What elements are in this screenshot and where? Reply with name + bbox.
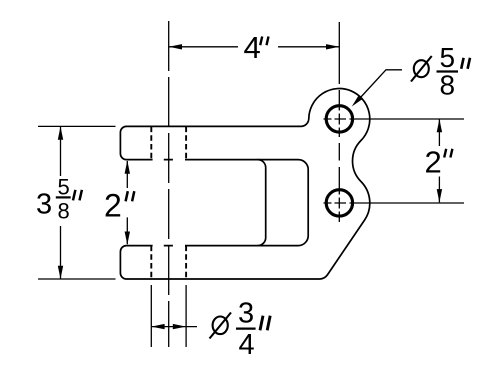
arrow slot 2in down <box>125 232 130 245</box>
extension line: overall height top (3 5/8) <box>38 125 116 127</box>
dimension line 4 inch (top) <box>169 46 340 48</box>
hole H1 top 5/8 circle <box>326 106 352 132</box>
hole H2 bottom 5/8 circle <box>326 190 352 216</box>
arrow 2in right top <box>437 119 442 132</box>
inch mark after 5/8 <box>461 58 470 69</box>
hidden line: pin hole left edge, top arm <box>150 127 152 160</box>
hidden line: pin hole right edge, top arm <box>185 127 187 160</box>
svg-text:8: 8 <box>58 198 70 223</box>
hole opening breaks on inner face of top arm <box>153 159 185 161</box>
extension line: overall height bottom (3 5/8) <box>38 278 116 280</box>
leader line dia 5/8 <box>360 70 402 98</box>
dimension line 2 inch (slot, inner) <box>126 161 128 244</box>
extension line: hole edge left below part <box>150 285 152 347</box>
dimension line dia 3/4 (bottom) <box>151 326 197 328</box>
arrow slot 2in up <box>125 160 130 173</box>
centerline: right holes axis vertical x=339.3 <box>338 22 340 222</box>
svg-text:3: 3 <box>238 298 254 330</box>
arrow 2in right bottom <box>437 189 442 202</box>
phi symbol dia 3/4 <box>210 313 232 339</box>
inch mark after 3 5/8 <box>73 190 82 201</box>
dimension line 3 5/8 (left) <box>60 126 62 279</box>
extension line: hole edge right below part <box>185 285 187 347</box>
svg-text:5: 5 <box>58 174 70 199</box>
svg-text:2: 2 <box>104 187 122 223</box>
phi symbol dia 5/8 <box>411 56 432 82</box>
hole opening breaks on inner face of bottom arm <box>153 245 185 247</box>
fraction bar 3/4 <box>236 327 256 329</box>
part outline (clevis bracket body) <box>120 89 369 279</box>
dimension line 2 inch (right) <box>438 119 440 202</box>
svg-text:8: 8 <box>440 69 456 100</box>
fraction bar 5/8 <box>56 196 71 198</box>
svg-text:2: 2 <box>425 145 442 180</box>
center mark + extension line through hole H2 (y=203) <box>324 202 465 204</box>
svg-text:4: 4 <box>244 30 261 65</box>
inch ticks 2in right <box>444 149 452 158</box>
hidden line: pin hole right edge, bottom arm <box>185 246 187 279</box>
arrow 3-5/8 bottom <box>58 266 63 279</box>
hidden line: pin hole left edge, bottom arm <box>150 246 152 279</box>
svg-text:3: 3 <box>36 189 52 221</box>
arrow dia3/4 left <box>151 324 164 329</box>
inch ticks 4in <box>260 37 268 46</box>
svg-text:4: 4 <box>239 329 255 361</box>
leader arrowhead <box>352 95 363 106</box>
fraction bar 5/8 dia <box>437 70 459 72</box>
inch mark after 3/4 <box>260 316 270 331</box>
arrow 4in right <box>326 44 339 49</box>
arrow 3-5/8 top <box>58 126 63 139</box>
center mark + extension line through hole H1 (y=119) <box>324 118 465 120</box>
centerline: pin hole axis vertical x=168.7 <box>168 21 170 347</box>
inch ticks 2in slot <box>126 191 135 201</box>
arrow dia3/4 right <box>173 324 186 329</box>
slot inner step contour <box>258 160 266 246</box>
arrow 4in left <box>169 44 182 49</box>
